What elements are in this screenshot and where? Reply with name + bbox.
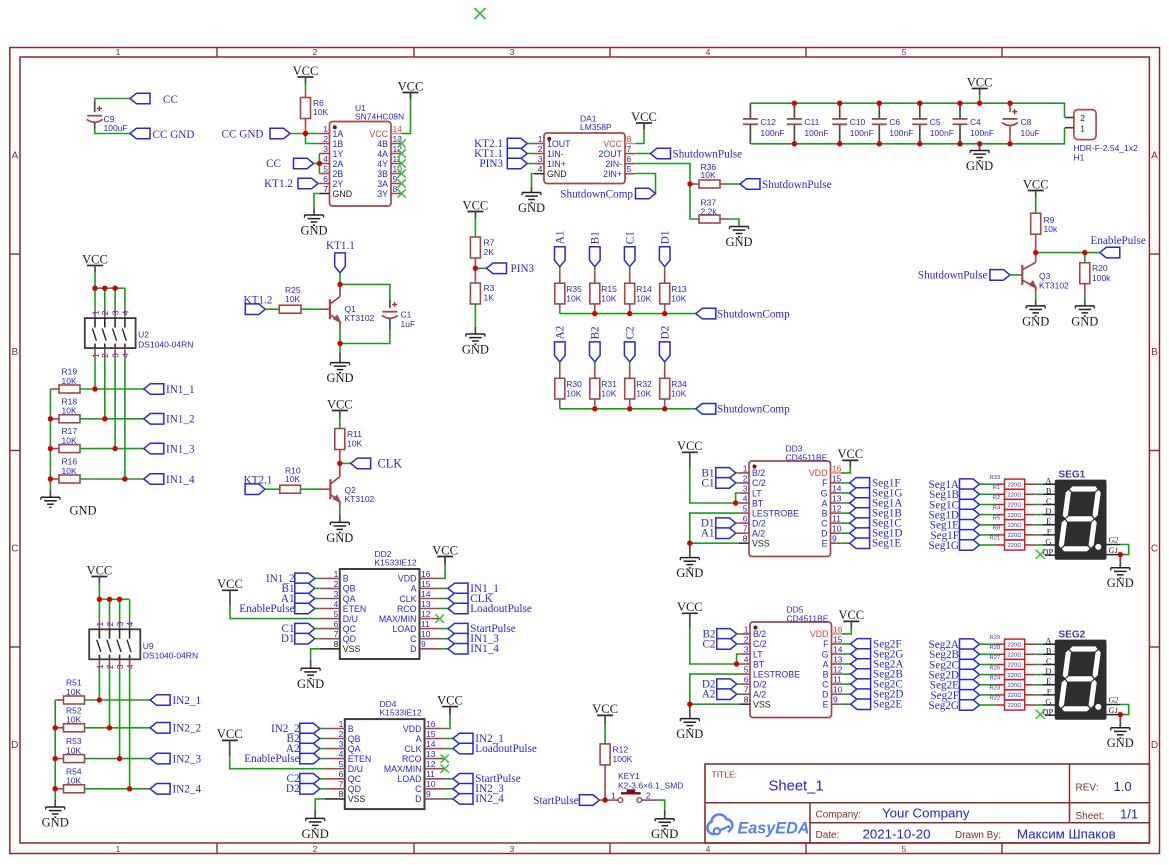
- junction: [687, 181, 692, 186]
- ground: [1022, 300, 1049, 328]
- wire: [1120, 545, 1128, 555]
- wire: [737, 633, 740, 635]
- wire: [980, 694, 1005, 696]
- net flag StartPulse: [440, 623, 516, 635]
- svg-text:SN74HC08N: SN74HC08N: [355, 112, 404, 122]
- svg-text:GND: GND: [302, 827, 329, 841]
- wire: [315, 799, 325, 810]
- svg-text:U2: U2: [138, 330, 149, 340]
- wire: [440, 557, 446, 579]
- net flag Seg2B: [929, 649, 979, 661]
- svg-text:4: 4: [120, 310, 130, 315]
- svg-text:C: C: [821, 518, 828, 528]
- svg-text:4Y: 4Y: [377, 159, 388, 169]
- svg-text:3: 3: [510, 844, 515, 854]
- svg-text:D/2: D/2: [753, 679, 767, 689]
- junction: [53, 756, 58, 761]
- resistor R36 10K: [699, 162, 727, 188]
- display pin A: [1043, 636, 1056, 646]
- net flag ShutdownComp: [560, 188, 655, 200]
- svg-text:10K: 10K: [62, 435, 77, 445]
- svg-text:10K: 10K: [62, 376, 77, 386]
- svg-text:1uF: 1uF: [401, 319, 416, 329]
- net flag Seg1A: [929, 479, 980, 491]
- svg-text:220Ω: 220Ω: [1008, 533, 1023, 539]
- svg-text:2: 2: [323, 134, 328, 144]
- display pin G1: [1106, 706, 1120, 715]
- wire: [99, 598, 129, 600]
- svg-text:DS1040-04RN: DS1040-04RN: [138, 339, 193, 349]
- svg-text:100nF: 100nF: [889, 128, 913, 138]
- capacitor C9 100uF: [87, 101, 128, 133]
- svg-text:D/2: D/2: [752, 518, 766, 528]
- svg-text:220Ω: 220Ω: [1008, 482, 1023, 488]
- svg-text:C: C: [1151, 544, 1158, 555]
- svg-text:12: 12: [426, 759, 436, 769]
- svg-text:9: 9: [426, 789, 431, 799]
- net flag Seg1F: [930, 530, 979, 542]
- ground: [676, 704, 703, 741]
- wire: [315, 638, 320, 640]
- svg-text:REV:: REV:: [1076, 783, 1099, 794]
- svg-text:B: B: [343, 574, 349, 584]
- power flag VCC: [631, 110, 657, 130]
- resistor R28 220 ohm: [990, 645, 1025, 659]
- wire: [980, 534, 1005, 536]
- wire: [124, 348, 126, 479]
- wire: [114, 288, 116, 318]
- junction: [92, 386, 97, 391]
- svg-text:C1: C1: [624, 231, 636, 244]
- ground: [462, 327, 489, 357]
- svg-text:14: 14: [421, 589, 431, 599]
- wire: [980, 674, 1005, 676]
- svg-text:10K: 10K: [636, 389, 651, 399]
- junction: [92, 286, 97, 291]
- wire: [1035, 293, 1037, 300]
- net flag C1: [624, 231, 636, 267]
- svg-text:3: 3: [743, 483, 748, 493]
- power flag VCC: [967, 75, 993, 103]
- svg-text:R32: R32: [636, 379, 652, 389]
- svg-text:CD4511BE: CD4511BE: [786, 452, 828, 462]
- wire: [301, 308, 319, 310]
- junction: [917, 101, 922, 147]
- net flag Seg1F: [841, 477, 901, 489]
- svg-text:G1: G1: [1109, 546, 1119, 555]
- net flag IN2_1: [150, 695, 201, 707]
- wire: [594, 267, 596, 284]
- net flag LoadoutPulse: [440, 603, 532, 615]
- wire: [1025, 684, 1043, 686]
- junction: [48, 476, 53, 481]
- wire: [655, 800, 665, 810]
- wire: [727, 219, 739, 227]
- svg-text:12: 12: [832, 504, 842, 514]
- svg-text:13: 13: [832, 493, 842, 503]
- display pin G: [1043, 696, 1056, 706]
- ground: [1107, 555, 1134, 591]
- svg-text:LESTROBE: LESTROBE: [753, 669, 800, 679]
- resistor R27 220 ohm: [990, 655, 1025, 669]
- svg-text:R12: R12: [613, 744, 629, 754]
- net flag Seg2F: [842, 638, 902, 650]
- svg-text:10: 10: [832, 524, 842, 534]
- junction: [127, 786, 132, 791]
- svg-text:G: G: [822, 649, 829, 659]
- resistor R2 220 ohm: [993, 495, 1025, 509]
- net flag B1: [589, 231, 601, 267]
- svg-text:CD4511BE: CD4511BE: [787, 613, 829, 623]
- svg-text:A: A: [11, 151, 18, 162]
- net flag Seg2G: [842, 648, 904, 660]
- wire: [340, 462, 351, 464]
- transistor Q2 KT3102: [330, 463, 374, 507]
- wire: [1025, 664, 1043, 666]
- svg-text:VSS: VSS: [752, 539, 770, 549]
- svg-text:C/2: C/2: [752, 478, 766, 488]
- svg-text:8: 8: [743, 534, 748, 544]
- wire: [320, 758, 325, 760]
- svg-text:220Ω: 220Ω: [1008, 513, 1023, 519]
- svg-text:VSS: VSS: [753, 700, 771, 710]
- svg-text:2: 2: [646, 790, 651, 800]
- svg-text:R27: R27: [990, 655, 1001, 661]
- capacitor C8 10uF: [1002, 103, 1040, 144]
- svg-text:QA: QA: [343, 594, 356, 604]
- power flag VCC: [398, 79, 424, 99]
- wire: [314, 194, 319, 209]
- net flag B2: [702, 628, 736, 640]
- wire: [737, 654, 740, 664]
- svg-text:15: 15: [426, 729, 436, 739]
- counter IC DD4 K1533IE12: [325, 699, 445, 809]
- svg-text:VCC: VCC: [398, 79, 424, 93]
- no-connect: [436, 614, 444, 622]
- wire: [265, 488, 280, 490]
- svg-text:A1: A1: [554, 231, 566, 245]
- svg-text:2Y: 2Y: [333, 179, 344, 189]
- wire: [1025, 524, 1043, 526]
- power flag VCC: [293, 64, 319, 84]
- net flag A1: [554, 231, 566, 267]
- resistor R54 10K: [55, 766, 84, 792]
- display pin C: [1043, 656, 1056, 666]
- svg-text:R30: R30: [566, 379, 582, 389]
- resistor R30 10K: [555, 378, 582, 399]
- svg-text:3A: 3A: [377, 179, 388, 189]
- svg-text:ShutdownPulse: ShutdownPulse: [673, 148, 743, 160]
- svg-text:G2: G2: [1109, 536, 1119, 545]
- counter IC DD2 K1533IE12: [320, 549, 440, 659]
- svg-text:GND: GND: [297, 677, 324, 691]
- junction: [317, 161, 322, 166]
- junction: [1007, 101, 1012, 147]
- svg-text:SEG2: SEG2: [1059, 630, 1086, 641]
- svg-text:LOAD: LOAD: [398, 774, 422, 784]
- net flag IN2_4: [445, 793, 505, 805]
- wire: [736, 522, 739, 524]
- svg-text:1: 1: [116, 844, 121, 854]
- svg-text:IN2_3: IN2_3: [173, 754, 202, 766]
- svg-text:KT3102: KT3102: [345, 313, 375, 323]
- wire: [315, 587, 320, 589]
- svg-text:LT: LT: [753, 649, 763, 659]
- power flag VCC: [87, 563, 113, 599]
- wire: [124, 288, 126, 318]
- junction: [97, 697, 102, 702]
- wire: [80, 418, 144, 420]
- ground: [302, 810, 329, 841]
- wire: [594, 362, 596, 378]
- svg-text:7: 7: [627, 144, 632, 154]
- svg-text:CC: CC: [266, 158, 281, 170]
- svg-text:A2: A2: [554, 326, 566, 340]
- resistor R24 220 ohm: [990, 676, 1025, 690]
- svg-text:1: 1: [744, 624, 749, 634]
- svg-text:13: 13: [833, 654, 843, 664]
- junction: [473, 266, 478, 271]
- svg-text:H1: H1: [1074, 153, 1085, 163]
- svg-text:220Ω: 220Ω: [1008, 673, 1023, 679]
- junction: [957, 101, 962, 147]
- svg-text:100nF: 100nF: [804, 128, 828, 138]
- wire: [320, 748, 325, 750]
- origin cross mark: [475, 8, 486, 19]
- wire: [339, 327, 341, 344]
- resistor R31 10K: [590, 378, 617, 399]
- resistor R16 10K: [50, 457, 80, 483]
- net flag Seg1B: [929, 489, 979, 501]
- net flag IN1_2: [266, 573, 315, 585]
- junction: [1118, 712, 1123, 717]
- svg-text:10K: 10K: [66, 687, 81, 697]
- wire: [690, 459, 739, 503]
- wire: [737, 693, 740, 695]
- svg-text:5: 5: [743, 504, 748, 514]
- wire: [750, 103, 1064, 117]
- resistor R19 10K: [50, 367, 80, 393]
- svg-text:ShutdownPulse: ShutdownPulse: [918, 270, 988, 282]
- svg-text:E: E: [1046, 676, 1051, 686]
- svg-text:R15: R15: [601, 284, 617, 294]
- ground: [326, 353, 353, 385]
- svg-text:8: 8: [393, 184, 398, 194]
- net flag ShutdownComp: [696, 404, 790, 416]
- net flag IN1_3: [144, 443, 195, 455]
- svg-text:E: E: [823, 700, 829, 710]
- svg-text:13: 13: [421, 599, 431, 609]
- ground: [42, 807, 69, 830]
- wire: [980, 524, 1005, 526]
- power flag VCC: [327, 397, 353, 428]
- resistor R22 220 ohm: [990, 696, 1025, 710]
- wire: [560, 313, 696, 315]
- wire: [129, 659, 131, 789]
- svg-text:R35: R35: [566, 284, 582, 294]
- svg-text:F: F: [1047, 686, 1052, 696]
- svg-text:DS1040-04RN: DS1040-04RN: [143, 651, 198, 661]
- svg-text:GND: GND: [547, 169, 567, 179]
- svg-text:ShutdownComp: ShutdownComp: [560, 188, 633, 200]
- svg-text:4: 4: [125, 622, 135, 627]
- svg-text:VDD: VDD: [403, 724, 422, 734]
- svg-text:A: A: [1045, 636, 1052, 646]
- svg-text:B: B: [1046, 486, 1052, 496]
- svg-text:R3: R3: [484, 283, 495, 293]
- svg-text:7: 7: [339, 779, 344, 789]
- 7-segment display SEG1: [1055, 470, 1106, 560]
- wire: [980, 544, 1005, 546]
- svg-text:220Ω: 220Ω: [1008, 693, 1023, 699]
- svg-text:D: D: [410, 644, 416, 654]
- svg-text:ShutdownComp: ShutdownComp: [717, 404, 790, 416]
- net flag CC: [130, 93, 178, 106]
- net flag PIN3: [479, 158, 527, 170]
- wire: [664, 267, 666, 284]
- net flag Seg1E: [930, 520, 980, 532]
- net flag C1: [282, 623, 315, 635]
- svg-text:1.0: 1.0: [1114, 779, 1132, 794]
- wire: [109, 659, 111, 728]
- svg-text:R13: R13: [671, 284, 687, 294]
- op-amp IC DA1 LM358P: [534, 113, 635, 183]
- svg-text:VCC: VCC: [677, 439, 703, 453]
- svg-text:B: B: [822, 508, 828, 518]
- net flag ShutdownComp: [696, 308, 790, 320]
- svg-text:GND: GND: [326, 531, 353, 545]
- net flag CC GND: [130, 128, 194, 141]
- wire: [54, 700, 56, 800]
- svg-text:2: 2: [1080, 113, 1085, 123]
- svg-text:C4: C4: [970, 117, 981, 127]
- net flag Seg2E: [930, 680, 980, 692]
- switch IC U9 DS1040-04RN: [89, 622, 198, 670]
- svg-text:A2: A2: [702, 689, 716, 701]
- wire: [980, 684, 1005, 686]
- wire: [559, 267, 561, 284]
- net flag A2: [554, 326, 566, 362]
- wire: [1025, 704, 1043, 706]
- net flag EnablePulse: [244, 753, 320, 765]
- svg-text:1OUT: 1OUT: [547, 139, 571, 149]
- svg-text:A: A: [416, 734, 422, 744]
- svg-text:10K: 10K: [66, 776, 81, 786]
- svg-text:B/2: B/2: [753, 629, 766, 639]
- net flag Seg2E: [842, 699, 903, 711]
- svg-text:IN1_3: IN1_3: [166, 444, 195, 456]
- wire: [559, 304, 561, 314]
- net flag Seg1D: [841, 528, 903, 540]
- svg-text:2OUT: 2OUT: [599, 149, 623, 159]
- wire: [98, 659, 100, 700]
- svg-text:5: 5: [902, 47, 907, 57]
- svg-text:2: 2: [334, 579, 339, 589]
- svg-text:G1: G1: [1109, 706, 1119, 715]
- svg-text:G: G: [1045, 696, 1051, 706]
- svg-text:RCO: RCO: [397, 604, 417, 614]
- wire: [119, 659, 121, 758]
- svg-text:1: 1: [90, 310, 100, 315]
- svg-text:Your Company: Your Company: [882, 805, 970, 820]
- svg-text:15: 15: [832, 473, 842, 483]
- wire: [85, 758, 151, 760]
- ground: [41, 497, 97, 517]
- svg-text:C: C: [11, 544, 18, 555]
- svg-text:10K: 10K: [601, 293, 616, 303]
- svg-text:3: 3: [111, 310, 121, 315]
- net flag Seg2D: [929, 669, 980, 681]
- svg-text:KEY1: KEY1: [618, 771, 640, 781]
- wire: [635, 164, 699, 220]
- svg-text:10K: 10K: [313, 107, 328, 117]
- svg-text:B: B: [1151, 347, 1158, 358]
- wire: [559, 399, 561, 409]
- net flag IN1_1: [440, 583, 499, 595]
- svg-text:220Ω: 220Ω: [1008, 683, 1023, 689]
- svg-text:B2: B2: [589, 326, 601, 339]
- net flag A1: [701, 528, 736, 540]
- transistor Q3 KT3102: [1022, 253, 1069, 293]
- net flag Seg1D: [929, 509, 980, 521]
- resistor R9 10k: [1031, 213, 1058, 252]
- svg-text:F: F: [822, 478, 828, 488]
- resistor R14 10K: [625, 283, 652, 304]
- svg-text:GND: GND: [676, 566, 703, 580]
- svg-text:5: 5: [627, 164, 632, 174]
- svg-text:220Ω: 220Ω: [1008, 503, 1023, 509]
- svg-text:VSS: VSS: [343, 644, 361, 654]
- wire: [736, 532, 739, 534]
- svg-text:2: 2: [313, 844, 318, 854]
- svg-text:R29: R29: [990, 635, 1001, 641]
- wire: [320, 778, 325, 780]
- display pin F: [1043, 526, 1056, 536]
- svg-text:VCC: VCC: [603, 139, 622, 149]
- svg-text:IN1_4: IN1_4: [470, 643, 499, 655]
- wire: [306, 134, 320, 144]
- net flag ShutdownPulse: [918, 270, 1010, 282]
- net flag IN2_1: [445, 733, 504, 745]
- ground: [297, 660, 324, 691]
- svg-text:14: 14: [832, 483, 842, 493]
- resistor R3 1K: [470, 268, 494, 304]
- wire: [49, 389, 51, 490]
- svg-text:F: F: [823, 639, 829, 649]
- junction: [53, 786, 58, 791]
- svg-text:3: 3: [323, 144, 328, 154]
- wire: [980, 643, 1005, 645]
- svg-text:LoadoutPulse: LoadoutPulse: [470, 603, 532, 615]
- no-connect: [441, 765, 449, 773]
- svg-text:D: D: [1045, 506, 1051, 516]
- junction: [662, 311, 667, 316]
- svg-text:10K: 10K: [566, 389, 581, 399]
- svg-text:QC: QC: [348, 774, 362, 784]
- wire: [301, 488, 320, 490]
- svg-text:10K: 10K: [62, 466, 77, 476]
- wire: [527, 144, 534, 164]
- wire: [445, 707, 451, 729]
- svg-text:R24: R24: [990, 676, 1001, 682]
- resistor R32 10K: [625, 378, 652, 399]
- decoder IC DD3 CD4511BE: [739, 444, 842, 557]
- svg-text:8: 8: [339, 789, 344, 799]
- svg-text:100nF: 100nF: [970, 128, 994, 138]
- svg-text:220Ω: 220Ω: [1008, 703, 1023, 709]
- wire: [1025, 544, 1043, 546]
- svg-text:220Ω: 220Ω: [1008, 543, 1023, 549]
